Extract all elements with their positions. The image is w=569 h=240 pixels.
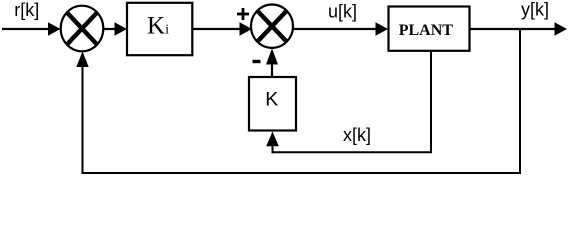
wire x[k] feedback from PLANT to K: [266, 51, 432, 153]
plus sign at S2: [237, 8, 249, 20]
svg-text:K: K: [265, 89, 278, 111]
svg-text:PLANT: PLANT: [399, 22, 454, 39]
wire K to S2: [266, 48, 278, 77]
wire outer feedback from y[k] to S1: [76, 29, 521, 174]
block PLANT: [389, 7, 470, 51]
label r[k]: [14, 0, 39, 20]
block K: [249, 77, 296, 131]
summing junction S1: [61, 6, 104, 52]
label x[k]: [343, 125, 371, 145]
block Ki: [127, 3, 192, 55]
label y[k]: [521, 0, 549, 20]
minus sign at S2: [253, 60, 261, 63]
svg-text:r[k]: r[k]: [14, 0, 39, 20]
svg-text:y[k]: y[k]: [521, 0, 549, 20]
label u[k]: [328, 1, 357, 21]
wire S2 to PLANT: [293, 22, 388, 36]
svg-text:u[k]: u[k]: [328, 1, 357, 21]
wire PLANT to output y[k]: [469, 22, 568, 36]
wire S1 to Ki: [103, 22, 127, 36]
wire Ki to S2: [192, 22, 252, 36]
wire input r[k]: [2, 22, 61, 36]
summing junction S2: [251, 5, 293, 48]
svg-text:x[k]: x[k]: [343, 125, 371, 145]
